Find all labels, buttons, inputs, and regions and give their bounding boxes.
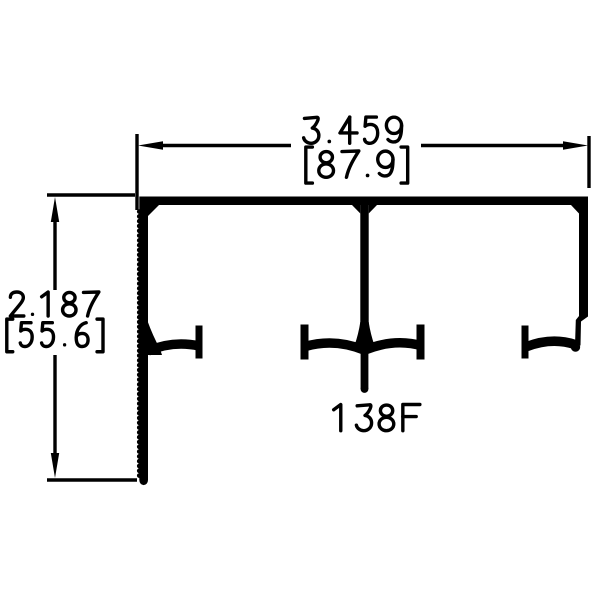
middle hook left arm [305,343,364,350]
arrowhead right of width dimension [563,141,588,149]
extension line top (profile top edge) [47,193,135,196]
dimension line 2.187 lower segment [53,355,56,454]
right wall upper [575,197,588,346]
left hook gusset [148,321,163,355]
dimension text 2.187 [10,292,23,316]
right hook arm [527,341,575,346]
left hook tip bar [196,326,203,359]
middle stem (center web) [360,203,368,346]
dimension text [55.6] [7,319,13,352]
middle stem lower leg [361,345,369,389]
dimension line 3.459 right segment [421,144,564,147]
dimension line 2.187 upper segment [53,221,56,290]
extension line bottom (profile bottom edge) [47,478,137,481]
fillet rail/right wall [571,205,579,214]
fillet rail/middle stem left [352,205,360,214]
middle hook left tip bar [301,325,309,360]
right hook arm end knob [571,342,580,351]
middle hook right tip bar [417,325,425,360]
extension line right (profile right edge) [587,136,590,188]
dimension text [87.9] [306,147,313,183]
arrowhead top of height dimension [51,197,59,222]
middle stem lower leg rounded tip [361,385,369,393]
arrowhead bottom of height dimension [51,453,59,478]
arrowhead left of width dimension [138,141,163,149]
right hook tip bar [522,326,529,359]
top rail (horizontal web) [140,197,588,206]
fillet rail/left wall [148,205,159,216]
left wall (serrated screw boss leg) [137,197,148,486]
extension line left (profile left edge) [135,134,138,210]
dimension line 3.459 left segment [162,144,291,147]
left hook arm [148,344,199,351]
part number label 138F [334,405,341,431]
middle stem boss (tapered thickening) [355,322,375,346]
dimension text 3.459 [304,117,319,143]
middle hook right arm [365,343,423,350]
fillet rail/middle stem right [369,205,377,214]
